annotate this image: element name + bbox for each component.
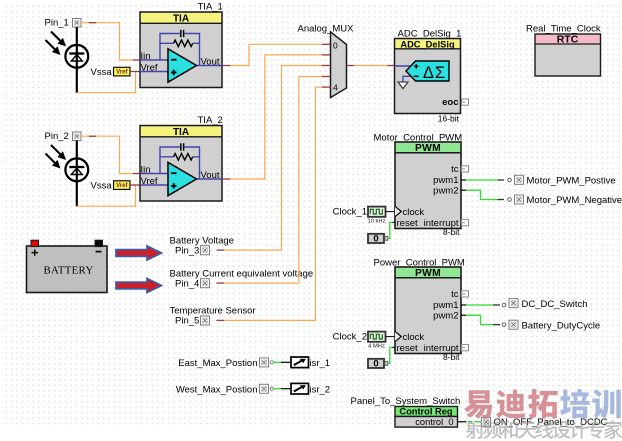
wire pwm2 to Battery_DutyCycle	[461, 315, 506, 326]
svg-text:DC_DC_Switch: DC_DC_Switch	[522, 299, 588, 310]
svg-text:tc: tc	[451, 289, 459, 300]
wire Clock_1 to clock input	[386, 211, 395, 213]
pin Battery_DutyCycle	[509, 320, 600, 331]
wire photodiode D1 to Vref node	[77, 72, 136, 93]
svg-text:Pin_1: Pin_1	[45, 17, 69, 28]
wire 0 to motor reset	[388, 222, 395, 238]
svg-text:Control Reg: Control Reg	[399, 407, 453, 417]
svg-text:Pin_2: Pin_2	[45, 131, 69, 142]
svg-text:RTC: RTC	[557, 34, 579, 46]
clock Clock_1	[333, 206, 386, 224]
svg-text:Panel_To_System_Switch: Panel_To_System_Switch	[351, 396, 461, 407]
svg-text:4 MHz: 4 MHz	[368, 344, 385, 350]
wire TIA_1 Vout to MUX input 0	[222, 44, 330, 65]
RTC Real_Time_Clock	[526, 23, 601, 76]
svg-text:4: 4	[333, 83, 338, 93]
svg-text:16-bit: 16-bit	[438, 113, 460, 123]
svg-text:Clock_1: Clock_1	[333, 206, 367, 217]
logic low 0 (motor reset)	[368, 234, 388, 245]
svg-text:Vref: Vref	[141, 63, 158, 74]
svg-text:Motor_PWM_Negative: Motor_PWM_Negative	[527, 195, 622, 206]
svg-text:pwm2: pwm2	[433, 185, 458, 196]
svg-text:Vref: Vref	[116, 70, 128, 76]
pin Pin_1	[45, 17, 82, 28]
svg-text:10 kHz: 10 kHz	[367, 219, 385, 225]
svg-text:East_Max_Postion: East_Max_Postion	[178, 358, 257, 369]
terminal eoc	[442, 97, 468, 108]
svg-text:Pin_4: Pin_4	[175, 278, 199, 289]
svg-text:control_0: control_0	[415, 417, 453, 427]
svg-text:Vref: Vref	[116, 183, 128, 189]
svg-text:PWM: PWM	[415, 268, 441, 279]
wire Pin_4 to MUX	[217, 77, 323, 284]
svg-text:Vref: Vref	[141, 176, 158, 187]
watermark line 1	[464, 389, 621, 419]
wire pwm1 to DC_DC_Switch	[461, 303, 506, 307]
svg-text:Vout: Vout	[201, 170, 220, 181]
svg-text:Motor_PWM_Postive: Motor_PWM_Postive	[527, 175, 616, 186]
wire Vref tag to TIA_1 Vref	[130, 71, 140, 73]
wire control_0 to ON_OFF pin	[458, 421, 481, 423]
pin DC_DC_Switch	[509, 299, 588, 310]
arrow battery voltage	[116, 246, 162, 260]
svg-text:Vout: Vout	[201, 56, 220, 67]
svg-text:Battery_DutyCycle: Battery_DutyCycle	[522, 321, 601, 332]
svg-text:PWM: PWM	[415, 143, 441, 154]
wire 0 to power reset	[388, 347, 395, 363]
wire Pin_1 to TIA_1 Iin	[81, 23, 140, 60]
wire TIA_2 Vout to MUX input 1	[222, 55, 330, 179]
terminal Vref tag (1)	[114, 67, 131, 76]
svg-text:ΔΣ: ΔΣ	[423, 64, 446, 82]
interrupt isr_1	[291, 357, 330, 369]
svg-text:clock: clock	[403, 332, 425, 343]
svg-text:isr_1: isr_1	[310, 358, 331, 369]
wire photodiode D2 to Vref node	[77, 185, 136, 206]
pin Motor_PWM_Negative	[515, 195, 622, 206]
ADC ADC_DelSig_1	[395, 29, 462, 114]
control register Panel_To_System_Switch	[351, 396, 461, 427]
wire Clock_2 to clock input	[386, 336, 395, 338]
svg-text:0: 0	[333, 41, 338, 51]
svg-text:Vssa: Vssa	[91, 181, 113, 192]
battery	[27, 240, 108, 292]
svg-text:8-bit: 8-bit	[443, 227, 460, 237]
svg-text:ADC_DelSig: ADC_DelSig	[400, 39, 455, 49]
PWM Power_Control_PWM	[374, 257, 469, 362]
pin Pin_4	[175, 278, 210, 289]
svg-text:isr_2: isr_2	[310, 384, 331, 395]
pin ON_OFF_Panel_to_DCDC	[482, 417, 608, 428]
svg-text:0: 0	[373, 234, 378, 245]
PWM Motor_Control_PWM	[374, 132, 469, 237]
label Vssa (1)	[91, 67, 113, 78]
clock Clock_2	[333, 331, 386, 349]
photodiode D2	[46, 141, 89, 207]
wire pwm2 to Motor_PWM_Negative	[461, 190, 511, 201]
wire East_Max_Postion to isr_1	[270, 361, 291, 364]
svg-text:TIA: TIA	[173, 14, 189, 25]
pin Pin_5	[175, 316, 210, 327]
wire Vref tag to TIA_2 Vref	[130, 184, 140, 186]
label 16-bit	[438, 113, 460, 123]
svg-text:Vssa: Vssa	[91, 67, 113, 78]
op-amp block TIA_1	[140, 2, 223, 88]
wire pwm1 to Motor_PWM_Postive	[461, 178, 511, 182]
svg-text:Iin: Iin	[141, 51, 151, 62]
logic low 0 (power reset)	[368, 359, 388, 370]
wire MUX output to ADC input	[347, 65, 395, 67]
label Battery Voltage	[170, 235, 234, 246]
pin East_Max_Postion	[178, 358, 268, 369]
svg-text:TIA_2: TIA_2	[198, 115, 223, 126]
photodiode D1	[46, 27, 89, 93]
svg-text:BATTERY: BATTERY	[43, 264, 93, 276]
svg-text:Clock_2: Clock_2	[333, 331, 367, 342]
svg-text:reset: reset	[397, 343, 418, 354]
ground	[398, 82, 408, 89]
pin West_Max_Postion	[176, 384, 269, 395]
arrow battery current	[116, 279, 162, 293]
wire Pin_5 to MUX	[217, 87, 323, 320]
pin Motor_PWM_Postive	[515, 175, 616, 186]
wire West_Max_Postion to isr_2	[270, 387, 291, 390]
svg-text:8-bit: 8-bit	[443, 352, 460, 362]
svg-text:Iin: Iin	[141, 165, 151, 176]
svg-text:eoc: eoc	[442, 97, 458, 108]
interrupt isr_2	[291, 383, 330, 395]
svg-text:0: 0	[373, 359, 378, 370]
terminal Vref tag (2)	[114, 181, 131, 190]
svg-text:clock: clock	[403, 207, 425, 218]
pin Pin_3	[175, 245, 210, 256]
op-amp block TIA_2	[140, 115, 223, 201]
svg-text:pwm2: pwm2	[433, 310, 458, 321]
analog mux Analog_MUX	[298, 24, 355, 98]
svg-text:Pin_5: Pin_5	[175, 316, 199, 327]
label Temperature Sensor	[170, 306, 256, 317]
svg-text:TIA_1: TIA_1	[198, 2, 223, 13]
svg-text:West_Max_Postion: West_Max_Postion	[176, 384, 258, 395]
label Battery Current equivalent voltage	[170, 268, 314, 279]
svg-text:reset: reset	[397, 218, 418, 229]
svg-text:tc: tc	[451, 164, 459, 175]
watermark line 2	[466, 420, 622, 438]
pin Pin_2	[45, 131, 82, 142]
svg-text:Analog_MUX: Analog_MUX	[298, 24, 355, 35]
svg-text:Pin_3: Pin_3	[175, 245, 199, 256]
wire Pin_2 to TIA_2 Iin	[81, 136, 140, 173]
svg-text:TIA: TIA	[173, 127, 189, 138]
wire Pin_3 to MUX	[217, 66, 323, 251]
label Vssa (2)	[91, 181, 113, 192]
